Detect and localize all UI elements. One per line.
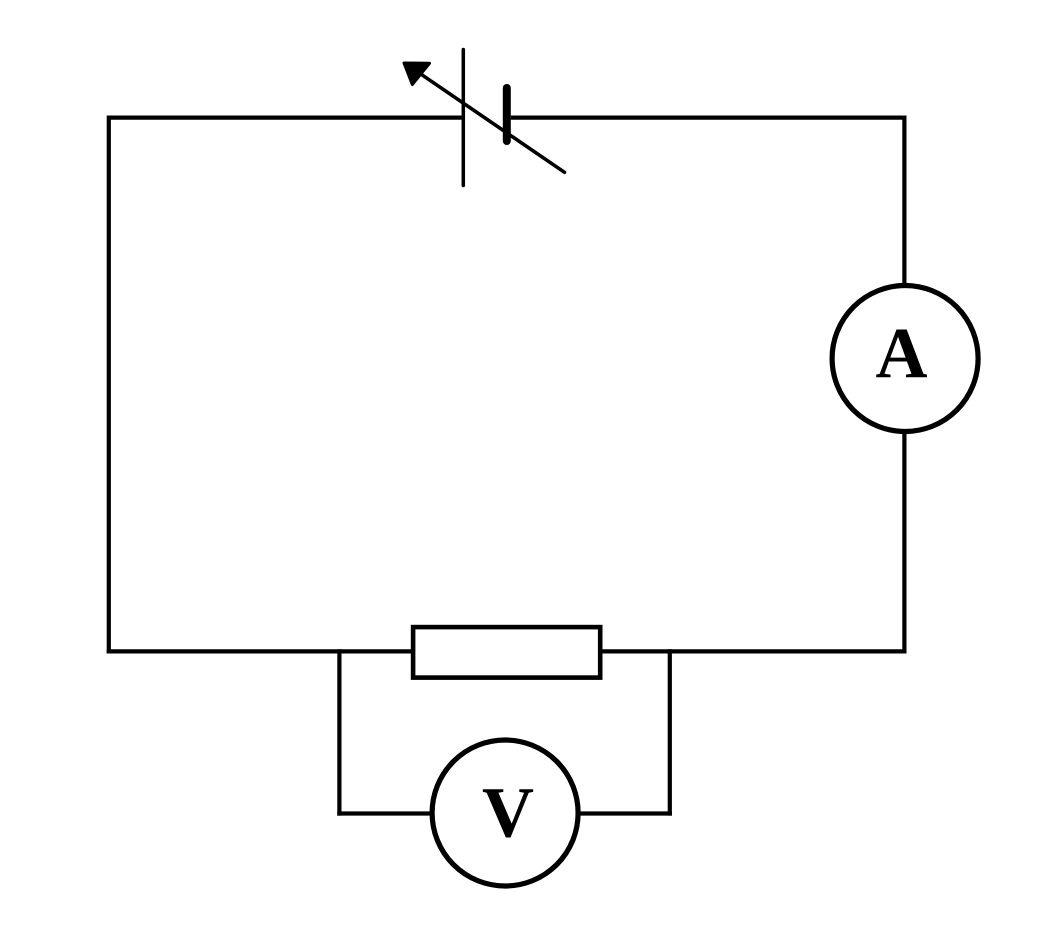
voltmeter right branch vertical wire — [668, 649, 672, 815]
battery B1 short thick negative plate — [503, 88, 511, 141]
wire right side lower (from ammeter) — [902, 431, 906, 654]
voltmeter left branch vertical wire — [337, 649, 341, 815]
wire bottom-left segment (to resistor) — [107, 649, 413, 653]
wire top-left segment (battery left lead) — [109, 115, 462, 119]
svg-text:A: A — [876, 314, 928, 394]
wire right side upper (to ammeter) — [902, 116, 906, 287]
wire bottom-right segment (from resistor) — [600, 649, 907, 653]
ammeter A1 circle — [832, 286, 978, 432]
variable-battery arrowhead — [404, 63, 430, 85]
svg-text:V: V — [482, 773, 534, 853]
voltmeter V1 circle — [432, 740, 578, 886]
wire top-right segment (battery right lead) — [511, 115, 905, 119]
resistor R1 body — [413, 627, 600, 678]
voltmeter left branch horizontal wire — [337, 811, 434, 815]
variable-battery diagonal arrow shaft — [421, 74, 565, 172]
voltmeter right branch horizontal wire — [576, 811, 672, 815]
wire left side of loop — [107, 116, 111, 654]
battery B1 long positive plate — [462, 50, 466, 186]
